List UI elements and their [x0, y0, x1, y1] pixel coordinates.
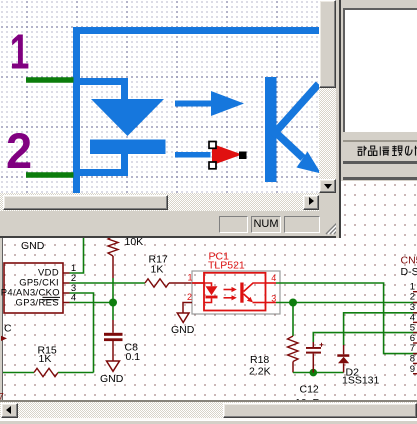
resistor R15 1K: [3, 345, 94, 377]
svg-text:2.2K: 2.2K: [249, 366, 271, 378]
junction A (10K/pin4/C8): [109, 299, 117, 307]
svg-text:D-SUB9P: D-SUB9P: [401, 266, 417, 278]
optocoupler PC1 TLP521 (selected, red): [187, 251, 280, 315]
selection handle bottom: [209, 162, 216, 169]
pin number 1 (magnified): [10, 25, 30, 80]
wire PC1 pin2 to ground: [183, 303, 192, 314]
vertical scrollbar: [319, 0, 336, 179]
v thumb: [319, 0, 336, 88]
corner: [319, 193, 336, 211]
net label GND (top left): [21, 240, 45, 252]
wire 10K to junction to C8: [112, 278, 114, 320]
svg-text:2: 2: [6, 124, 32, 180]
h thumb: [3, 195, 168, 210]
svg-text:1K: 1K: [151, 264, 164, 276]
symbol top wire (magnified): [73, 27, 319, 34]
phototransistor collector (magnified): [272, 84, 319, 136]
svg-text:0.1: 0.1: [126, 351, 141, 363]
svg-text:CN5: CN5: [401, 255, 417, 267]
v down button: [319, 179, 336, 193]
svg-text:4: 4: [271, 273, 276, 283]
selection handle tip (black): [239, 152, 247, 160]
canvas bottom edge: [0, 400, 417, 402]
svg-text:C12: C12: [300, 384, 319, 396]
svg-text:GND: GND: [171, 324, 195, 336]
svg-text:GND: GND: [21, 240, 45, 252]
wire D2 to CN5 pin3: [344, 313, 417, 345]
IC pin numbers 1-4: [71, 263, 76, 304]
FRONT WINDOW (part editor, magnified view): [0, 0, 341, 238]
svg-text:GND: GND: [100, 373, 124, 385]
canvas with blue dotted grid: [0, 0, 319, 193]
wire PC1 pin3 to CN5 pin2: [276, 302, 417, 304]
resistor R18 2.2K: [249, 303, 298, 378]
light arrow 2 (selected, red head): [175, 144, 242, 166]
svg-text:3: 3: [271, 294, 276, 304]
horizontal scrollbar: [0, 193, 319, 211]
wire C12 to CN5 pin5: [313, 333, 417, 342]
IC pin stubs: [63, 273, 70, 303]
bottom bands: [0, 418, 417, 420]
svg-text:R18: R18: [250, 354, 269, 366]
junction B (R18 top): [289, 299, 297, 307]
LED D1 triangle (magnified): [91, 99, 164, 136]
bottom horizontal scrollbar: [0, 402, 417, 418]
resistor R17 1K: [145, 254, 204, 288]
wire bottom net R18-C12-D2: [293, 372, 344, 374]
ground (C8): [100, 361, 124, 385]
capacitor C12 10uF (polarized): [295, 342, 324, 409]
pin number 7 (cut): [0, 392, 4, 403]
wire IC pin1 to top: [70, 238, 84, 273]
svg-text:1: 1: [187, 273, 192, 283]
LED cathode bar (magnified): [90, 140, 166, 155]
resize grip: [322, 219, 339, 235]
pin 1 stub (green): [26, 77, 74, 83]
junction C (C12 bottom): [310, 369, 318, 377]
phototransistor emitter with arrow (magnified): [272, 129, 321, 174]
wire PC1 pin4 to CN5 pin7: [276, 283, 417, 354]
capacitor C8 0.1: [104, 320, 140, 363]
svg-text:GP3/RES: GP3/RES: [16, 297, 59, 308]
main window chrome: [0, 238, 2, 400]
symbol left vertical wire (magnified): [73, 27, 80, 193]
svg-text:1SS131: 1SS131: [342, 375, 380, 387]
svg-text:1K: 1K: [39, 353, 52, 365]
svg-text:1: 1: [10, 25, 30, 80]
pin number 2 (magnified): [6, 124, 32, 180]
wire IC pin4 to junction: [70, 302, 114, 304]
svg-text:TLP521: TLP521: [208, 260, 245, 272]
ground (PC1 pin2): [171, 313, 195, 336]
light arrow 1 (blue): [175, 91, 244, 116]
selection handle top: [209, 142, 216, 149]
status bar: [0, 211, 341, 236]
pin 2 stub (green): [26, 172, 74, 178]
label C (cut at left edge): [4, 323, 12, 335]
diode D2 1SS131: [337, 345, 379, 387]
IC U1 box (GP5/CKI etc.): [1, 263, 63, 313]
window bottom/right borders: [0, 236, 341, 238]
部品情報の bar: [343, 140, 417, 142]
svg-text:C: C: [4, 323, 12, 335]
h right button: [303, 195, 319, 210]
RIGHT WINDOW (part info): [341, 0, 417, 181]
LED cathode lead (magnified): [77, 154, 125, 173]
phototransistor base bar (magnified): [265, 77, 277, 182]
connector CN5 D-SUB: [401, 255, 417, 375]
wire end marker (cut): [1, 336, 7, 341]
svg-text:2: 2: [187, 292, 192, 302]
resistor R16 10K (vertical): [108, 236, 143, 278]
LED anode lead (magnified): [77, 82, 125, 100]
wire IC pin2 to R17: [70, 282, 146, 284]
wire IC pin3 down to R15 net: [70, 293, 94, 373]
